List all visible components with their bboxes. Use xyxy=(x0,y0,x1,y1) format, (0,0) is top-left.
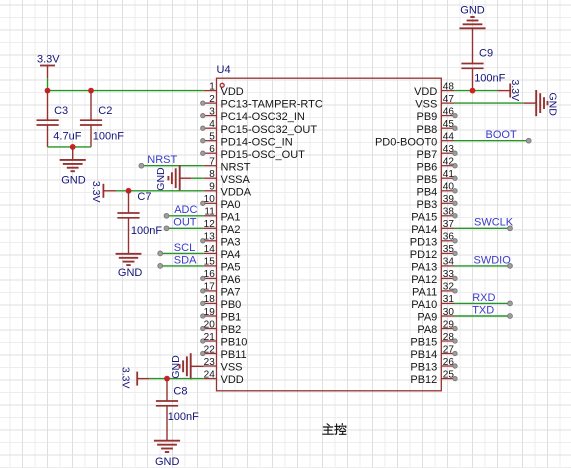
svg-text:34: 34 xyxy=(443,257,455,268)
svg-text:1: 1 xyxy=(209,81,215,92)
svg-text:PA15: PA15 xyxy=(411,211,437,223)
svg-text:GND: GND xyxy=(460,5,485,17)
svg-text:PB10: PB10 xyxy=(221,337,248,349)
pin 8 (VSSA) left xyxy=(204,169,251,186)
pin 28 (PB15) right xyxy=(410,332,457,349)
svg-text:48: 48 xyxy=(443,81,455,92)
wire RXD from pin 31 xyxy=(454,302,510,304)
node SWCLK open end xyxy=(508,226,513,231)
svg-text:PA9: PA9 xyxy=(417,312,437,324)
svg-text:41: 41 xyxy=(443,169,455,180)
svg-text:PA13: PA13 xyxy=(411,262,437,274)
svg-text:17: 17 xyxy=(204,282,216,293)
svg-text:36: 36 xyxy=(443,232,455,243)
svg-text:8: 8 xyxy=(209,169,215,180)
node SWDIO open end xyxy=(508,264,513,269)
svg-text:RXD: RXD xyxy=(472,292,495,304)
node BOOT open end xyxy=(526,138,531,143)
svg-text:PB8: PB8 xyxy=(417,124,438,136)
pin 27 (PB14) right xyxy=(410,344,457,361)
svg-text:PD12: PD12 xyxy=(410,249,438,261)
node junction at C2 top xyxy=(88,88,94,94)
svg-text:16: 16 xyxy=(204,269,216,280)
capacitor C3 4.7uF xyxy=(37,91,82,147)
svg-text:12: 12 xyxy=(204,219,216,230)
svg-text:PA3: PA3 xyxy=(221,236,241,248)
svg-text:PD14-OSC_IN: PD14-OSC_IN xyxy=(221,136,293,148)
svg-text:3.3V: 3.3V xyxy=(120,367,132,389)
svg-text:GND: GND xyxy=(61,174,85,186)
svg-text:22: 22 xyxy=(204,344,216,355)
svg-text:SDA: SDA xyxy=(174,254,197,266)
svg-text:GND: GND xyxy=(118,267,142,279)
svg-text:46: 46 xyxy=(443,106,455,117)
node TXD open end xyxy=(508,314,513,319)
svg-text:PB9: PB9 xyxy=(417,111,438,123)
ground (below C8) xyxy=(154,441,180,468)
svg-text:VDDA: VDDA xyxy=(221,186,252,198)
pin 43 (PB7) right xyxy=(417,144,458,161)
svg-text:14: 14 xyxy=(204,244,216,255)
wire VSSA gnd to pin 8 xyxy=(192,177,204,179)
pin 26 (PB13) right xyxy=(410,357,457,374)
pin 4 (PC15-OSC32_OUT) left xyxy=(201,119,318,136)
pin 39 (PB3) right xyxy=(417,194,458,211)
svg-text:PA8: PA8 xyxy=(417,324,437,336)
svg-text:26: 26 xyxy=(443,357,455,368)
pin 31 (PA10) right xyxy=(411,294,454,311)
svg-text:GND: GND xyxy=(155,456,180,468)
svg-text:4: 4 xyxy=(209,119,215,130)
pin 29 (PA8) right xyxy=(417,319,457,336)
svg-text:NRST: NRST xyxy=(147,154,177,166)
wire SCL to pin xyxy=(160,252,204,254)
pin 21 (PB10) left xyxy=(201,332,248,349)
node junction at C7 top xyxy=(126,188,132,194)
pin 32 (PA11) right xyxy=(412,282,457,299)
svg-text:6: 6 xyxy=(209,144,215,155)
svg-text:27: 27 xyxy=(443,344,455,355)
svg-text:VSS: VSS xyxy=(415,99,437,111)
node RXD open end xyxy=(508,301,513,306)
svg-text:PB6: PB6 xyxy=(417,161,438,173)
power flag 3.3V (VDDA, rotated) xyxy=(90,181,116,203)
svg-text:PC13-TAMPER-RTC: PC13-TAMPER-RTC xyxy=(221,99,323,111)
svg-text:7: 7 xyxy=(209,157,215,168)
capacitor C8 100nF xyxy=(156,379,199,441)
svg-text:9: 9 xyxy=(209,182,215,193)
wire SWDIO from pin 34 xyxy=(454,265,510,267)
svg-text:C3: C3 xyxy=(54,105,68,117)
pin 41 (PB5) right xyxy=(417,169,458,186)
svg-text:PB15: PB15 xyxy=(410,337,437,349)
svg-text:PC15-OSC32_OUT: PC15-OSC32_OUT xyxy=(221,124,318,136)
node junction at GND drop xyxy=(70,144,76,150)
pin 10 (PA0) left xyxy=(201,194,241,211)
power flag 3.3V (right, rotated) xyxy=(498,80,521,102)
svg-text:VDD: VDD xyxy=(414,86,437,98)
pin 3 (PC14-OSC32_IN) left xyxy=(201,106,305,123)
node junction at C9 bottom xyxy=(470,88,476,94)
svg-text:NRST: NRST xyxy=(221,161,251,173)
node SCL open end xyxy=(158,251,163,256)
pin 13 (PA3) left xyxy=(201,232,241,249)
pin 6 (PD15-OSC_OUT) left xyxy=(201,144,306,161)
svg-text:100nF: 100nF xyxy=(168,411,199,423)
svg-text:18: 18 xyxy=(204,294,216,305)
pin 48 (VDD) right xyxy=(414,81,454,98)
pin 23 (VSS) left xyxy=(204,357,243,374)
ground (right of pin 47, rotated) xyxy=(524,90,559,116)
pin 19 (PB1) left xyxy=(201,307,242,324)
svg-text:PD0-BOOT0: PD0-BOOT0 xyxy=(375,136,437,148)
pin 37 (PA14) right xyxy=(411,219,454,236)
ground (below C7) xyxy=(116,254,143,279)
ground (above C9, inverted) xyxy=(459,5,485,29)
svg-text:PA1: PA1 xyxy=(221,211,241,223)
power flag 3.3V (bottom left, rotated) xyxy=(120,367,150,389)
pin 47 (VSS) right xyxy=(415,94,454,111)
pin 1 (VDD) left xyxy=(204,81,244,98)
svg-text:15: 15 xyxy=(204,257,216,268)
svg-text:GND: GND xyxy=(155,167,167,191)
pin 5 (PD14-OSC_IN) left xyxy=(201,132,293,149)
svg-text:BOOT: BOOT xyxy=(486,129,517,141)
capacitor C7 100nF xyxy=(117,191,162,254)
pin 35 (PD12) right xyxy=(410,244,457,261)
pin 33 (PA12) right xyxy=(411,269,457,286)
svg-text:32: 32 xyxy=(443,282,455,293)
node OUT open end xyxy=(164,226,169,231)
svg-text:SWDIO: SWDIO xyxy=(474,254,512,266)
svg-text:43: 43 xyxy=(443,144,455,155)
pin 25 (PB12) right xyxy=(410,369,457,386)
svg-text:PA4: PA4 xyxy=(221,249,241,261)
svg-text:21: 21 xyxy=(204,332,216,343)
svg-text:19: 19 xyxy=(204,307,216,318)
svg-text:U4: U4 xyxy=(217,64,231,76)
svg-text:29: 29 xyxy=(443,319,455,330)
pin 36 (PD13) right xyxy=(410,232,457,249)
pin 44 (PD0-BOOT0) right xyxy=(375,132,454,149)
node NRST open end xyxy=(139,163,144,168)
wire SDA to pin xyxy=(160,265,204,267)
pin 20 (PB2) left xyxy=(201,319,242,336)
pin 45 (PB8) right xyxy=(417,119,458,136)
svg-text:3.3V: 3.3V xyxy=(509,80,521,102)
svg-text:PA11: PA11 xyxy=(412,287,437,299)
svg-text:C8: C8 xyxy=(173,386,187,398)
svg-text:PB4: PB4 xyxy=(417,186,438,198)
svg-text:PB14: PB14 xyxy=(410,349,437,361)
pin 7 (NRST) left xyxy=(204,157,251,174)
pin 40 (PB4) right xyxy=(417,182,458,199)
svg-text:100nF: 100nF xyxy=(474,73,505,85)
svg-text:30: 30 xyxy=(443,307,455,318)
svg-text:PB3: PB3 xyxy=(417,199,438,211)
svg-text:ADC: ADC xyxy=(174,204,197,216)
svg-text:TXD: TXD xyxy=(472,304,494,316)
svg-text:PA0: PA0 xyxy=(221,199,241,211)
ground (VSSA pin 8, rotated) xyxy=(155,165,192,191)
svg-text:PA5: PA5 xyxy=(221,262,241,274)
pin 38 (PA15) right xyxy=(411,207,457,224)
capacitor C2 100nF xyxy=(80,91,124,147)
svg-text:OUT: OUT xyxy=(173,217,197,229)
node junction at C3 top xyxy=(45,88,51,94)
svg-text:100nF: 100nF xyxy=(131,225,162,237)
text label 主控 (main controller) xyxy=(323,424,346,435)
svg-text:PA6: PA6 xyxy=(221,274,241,286)
svg-text:31: 31 xyxy=(443,294,455,305)
svg-text:42: 42 xyxy=(443,157,455,168)
wire BOOT from pin 44 xyxy=(454,140,529,142)
ground (below C3/C2) xyxy=(60,147,86,187)
pin 17 (PA7) left xyxy=(201,282,241,299)
svg-text:C7: C7 xyxy=(137,191,151,203)
wire pin 48 to 3.3V xyxy=(454,90,498,92)
svg-text:PB5: PB5 xyxy=(417,174,438,186)
power flag 3.3V (top left) xyxy=(37,54,60,78)
svg-text:PB0: PB0 xyxy=(221,299,242,311)
svg-text:SCL: SCL xyxy=(174,242,195,254)
svg-text:PB13: PB13 xyxy=(410,362,437,374)
pin 30 (PA9) right xyxy=(417,307,454,324)
pin 9 (VDDA) left xyxy=(204,182,252,199)
wire 3.3V rail to pin 1 xyxy=(48,90,204,92)
wire TXD from pin 30 xyxy=(454,315,510,317)
wire ADC to pin xyxy=(167,215,204,217)
svg-text:47: 47 xyxy=(443,94,455,105)
svg-text:39: 39 xyxy=(443,194,455,205)
svg-text:5: 5 xyxy=(209,132,215,143)
svg-text:20: 20 xyxy=(204,319,216,330)
pin 11 (PA1) left xyxy=(204,207,241,224)
pin 2 (PC13-TAMPER-RTC) left xyxy=(201,94,323,111)
svg-text:C2: C2 xyxy=(98,105,112,117)
svg-text:PB7: PB7 xyxy=(417,149,438,161)
svg-text:3.3V: 3.3V xyxy=(37,54,60,66)
svg-text:VSSA: VSSA xyxy=(221,174,251,186)
svg-text:35: 35 xyxy=(443,244,455,255)
svg-text:PA14: PA14 xyxy=(411,224,437,236)
svg-text:25: 25 xyxy=(443,369,455,380)
svg-text:11: 11 xyxy=(204,207,215,218)
pin 24 (VDD) left xyxy=(204,369,244,386)
svg-text:PB2: PB2 xyxy=(221,324,242,336)
svg-text:PA2: PA2 xyxy=(221,224,241,236)
svg-text:PD15-OSC_OUT: PD15-OSC_OUT xyxy=(221,149,306,161)
svg-text:40: 40 xyxy=(443,182,455,193)
node ADC open end xyxy=(164,213,169,218)
node SDA open end xyxy=(158,264,163,269)
svg-text:PA12: PA12 xyxy=(411,274,437,286)
svg-text:24: 24 xyxy=(204,369,216,380)
svg-text:10: 10 xyxy=(204,194,216,205)
svg-text:100nF: 100nF xyxy=(93,131,124,143)
svg-text:PC14-OSC32_IN: PC14-OSC32_IN xyxy=(221,111,305,123)
wire SWCLK from pin 37 xyxy=(454,227,510,229)
wire 3.3V flag to rail xyxy=(47,78,49,90)
svg-text:23: 23 xyxy=(204,357,216,368)
svg-text:44: 44 xyxy=(443,132,455,143)
wire OUT to pin xyxy=(167,227,204,229)
svg-text:38: 38 xyxy=(443,207,455,218)
pin 42 (PB6) right xyxy=(417,157,458,174)
capacitor C9 100nF xyxy=(461,28,505,90)
svg-text:PB12: PB12 xyxy=(410,374,437,386)
node junction at C8 top xyxy=(164,376,170,382)
svg-text:PB11: PB11 xyxy=(221,349,247,361)
pin 18 (PB0) left xyxy=(201,294,242,311)
svg-text:13: 13 xyxy=(204,232,216,243)
svg-text:4.7uF: 4.7uF xyxy=(53,131,81,143)
svg-text:3: 3 xyxy=(209,106,215,117)
svg-text:PA7: PA7 xyxy=(221,287,241,299)
pin 46 (PB9) right xyxy=(417,106,458,123)
pin 14 (PA4) left xyxy=(204,244,241,261)
svg-text:2: 2 xyxy=(209,94,215,105)
IC U4 body xyxy=(217,64,442,391)
svg-text:28: 28 xyxy=(443,332,455,343)
pin 34 (PA13) right xyxy=(411,257,454,274)
svg-text:33: 33 xyxy=(443,269,455,280)
pin 16 (PA6) left xyxy=(201,269,241,286)
svg-text:PB1: PB1 xyxy=(221,312,242,324)
ground (VSS pin 23, rotated) xyxy=(170,353,204,379)
svg-text:3.3V: 3.3V xyxy=(90,181,102,203)
svg-text:VDD: VDD xyxy=(221,86,244,98)
wire 3.3V to VDDA pin 9 xyxy=(116,190,204,192)
svg-text:VDD: VDD xyxy=(221,374,244,386)
wire pin 47 to GND xyxy=(454,102,524,104)
svg-text:C9: C9 xyxy=(479,48,493,60)
pin 22 (PB11) left xyxy=(201,344,247,361)
svg-text:VSS: VSS xyxy=(221,362,243,374)
svg-text:PA10: PA10 xyxy=(411,299,437,311)
svg-text:GND: GND xyxy=(547,93,559,117)
svg-text:37: 37 xyxy=(443,219,455,230)
wire C3 bottom to C2 bottom xyxy=(48,146,92,148)
pin 12 (PA2) left xyxy=(204,219,241,236)
svg-text:PD13: PD13 xyxy=(410,236,438,248)
svg-text:45: 45 xyxy=(443,119,455,130)
pin 15 (PA5) left xyxy=(204,257,241,274)
wire 3.3V to pin 24 xyxy=(150,378,204,380)
wire NRST to pin 7 xyxy=(141,165,203,167)
